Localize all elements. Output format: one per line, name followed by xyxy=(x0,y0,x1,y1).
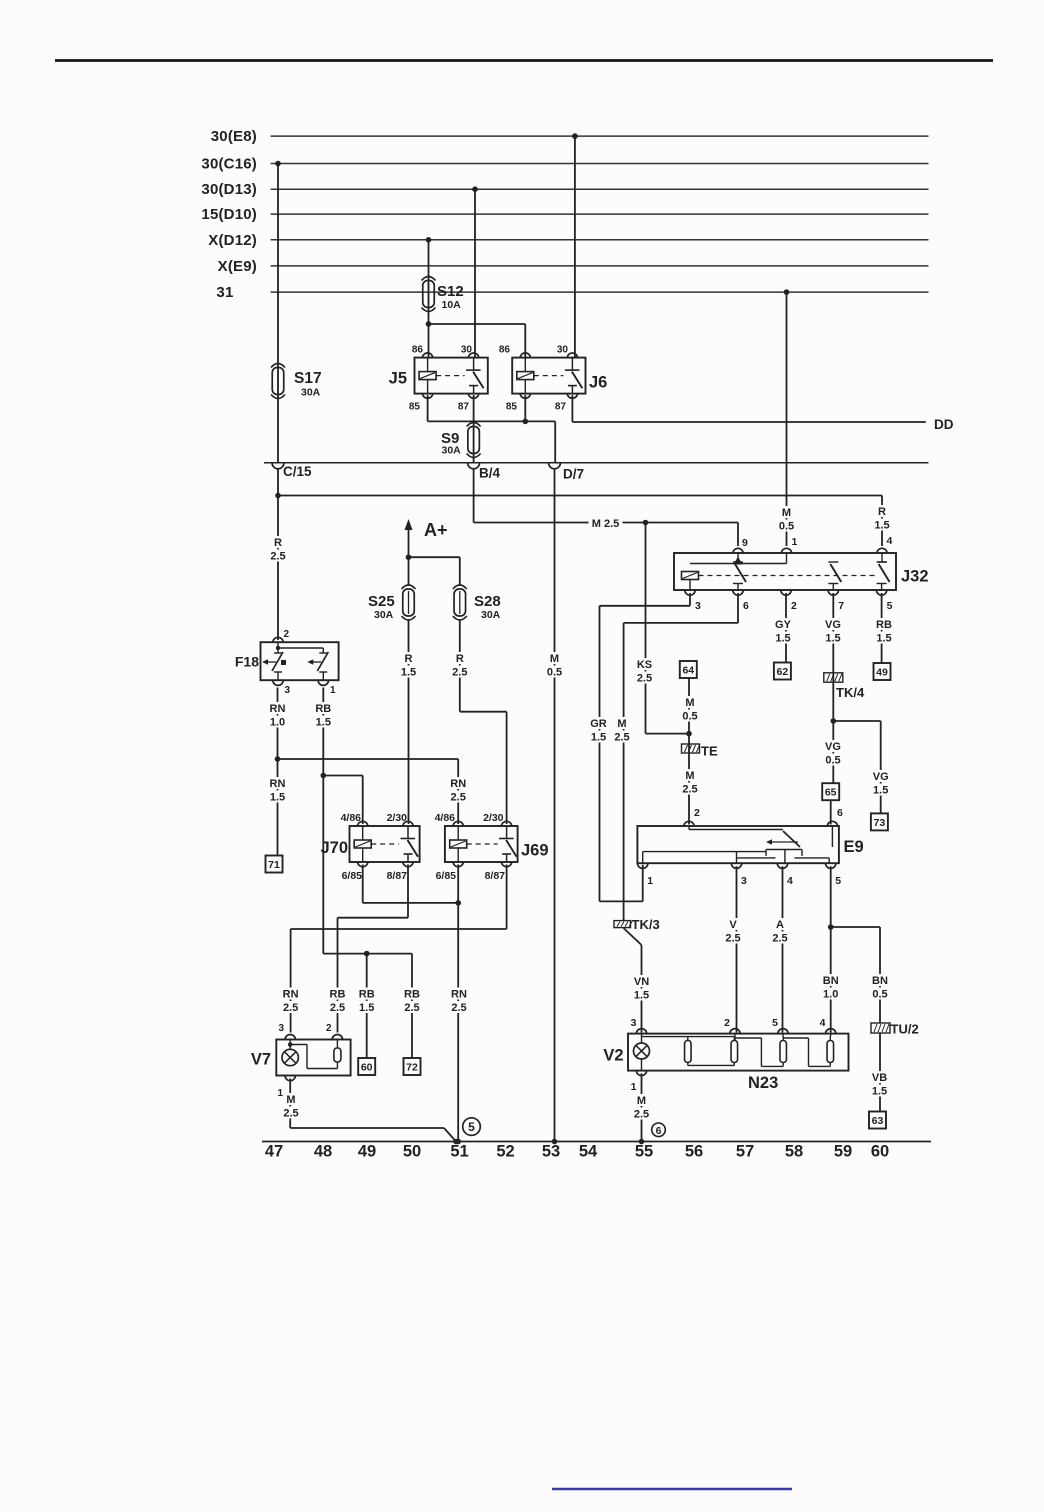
svg-text:KS: KS xyxy=(637,659,652,671)
svg-text:2: 2 xyxy=(326,1023,332,1034)
svg-text:M: M xyxy=(550,653,559,665)
svg-text:1.5: 1.5 xyxy=(634,990,649,1002)
svg-text:J69: J69 xyxy=(521,842,549,860)
svg-text:5: 5 xyxy=(835,875,841,887)
svg-text:RN: RN xyxy=(283,989,299,1001)
svg-text:M: M xyxy=(286,1094,295,1106)
svg-text:54: 54 xyxy=(579,1143,598,1161)
svg-text:30A: 30A xyxy=(374,609,394,621)
svg-text:F18: F18 xyxy=(235,654,259,670)
svg-text:73: 73 xyxy=(874,817,886,829)
svg-text:49: 49 xyxy=(876,667,888,679)
svg-text:2: 2 xyxy=(694,807,700,819)
svg-text:M: M xyxy=(685,770,694,782)
svg-text:1.5: 1.5 xyxy=(401,667,416,679)
svg-text:10A: 10A xyxy=(442,299,462,311)
svg-text:57: 57 xyxy=(736,1143,754,1161)
svg-text:DD: DD xyxy=(934,417,954,432)
svg-text:1.5: 1.5 xyxy=(874,520,889,532)
svg-text:2.5: 2.5 xyxy=(772,933,787,945)
svg-text:85: 85 xyxy=(409,402,421,413)
svg-text:6/85: 6/85 xyxy=(342,870,363,882)
svg-text:4/86: 4/86 xyxy=(341,812,362,824)
svg-text:55: 55 xyxy=(635,1143,653,1161)
svg-text:2.5: 2.5 xyxy=(283,1002,298,1014)
svg-text:72: 72 xyxy=(406,1062,418,1074)
svg-text:51: 51 xyxy=(450,1143,468,1161)
svg-text:6/85: 6/85 xyxy=(436,870,457,882)
svg-text:6: 6 xyxy=(743,600,749,612)
svg-text:6: 6 xyxy=(837,807,843,819)
svg-text:2.5: 2.5 xyxy=(330,1002,345,1014)
svg-text:2.5: 2.5 xyxy=(682,784,697,796)
svg-text:2: 2 xyxy=(284,629,290,640)
svg-text:0.5: 0.5 xyxy=(547,667,562,679)
svg-text:1.5: 1.5 xyxy=(316,717,331,729)
svg-text:J70: J70 xyxy=(320,839,348,857)
svg-text:1.5: 1.5 xyxy=(775,633,790,645)
svg-text:0.5: 0.5 xyxy=(825,755,840,767)
svg-text:A: A xyxy=(776,919,784,931)
svg-text:RB: RB xyxy=(359,989,375,1001)
svg-text:J6: J6 xyxy=(589,374,607,392)
svg-text:VG: VG xyxy=(825,619,841,631)
svg-text:J32: J32 xyxy=(901,568,929,586)
svg-text:3: 3 xyxy=(285,685,291,696)
svg-text:X(E9): X(E9) xyxy=(218,258,257,275)
svg-text:A+: A+ xyxy=(424,520,448,540)
svg-text:1: 1 xyxy=(792,536,798,548)
svg-text:49: 49 xyxy=(358,1143,376,1161)
svg-text:V2: V2 xyxy=(603,1047,623,1065)
svg-text:RN: RN xyxy=(450,778,466,790)
svg-text:4: 4 xyxy=(887,535,893,547)
svg-text:60: 60 xyxy=(361,1062,373,1074)
svg-text:E9: E9 xyxy=(844,838,864,856)
svg-text:47: 47 xyxy=(265,1143,283,1161)
svg-text:1.0: 1.0 xyxy=(270,717,285,729)
svg-text:X(D12): X(D12) xyxy=(208,232,257,249)
svg-text:C/15: C/15 xyxy=(283,464,312,479)
svg-text:2.5: 2.5 xyxy=(614,732,629,744)
svg-text:RB: RB xyxy=(404,989,420,1001)
svg-text:8/87: 8/87 xyxy=(485,870,506,882)
svg-text:VG: VG xyxy=(825,741,841,753)
svg-text:71: 71 xyxy=(268,859,280,871)
svg-text:M: M xyxy=(685,697,694,709)
svg-text:2.5: 2.5 xyxy=(637,673,652,685)
svg-text:1.5: 1.5 xyxy=(359,1002,374,1014)
svg-text:2.5: 2.5 xyxy=(451,1002,466,1014)
svg-text:30(C16): 30(C16) xyxy=(201,156,257,173)
svg-text:1: 1 xyxy=(277,1088,283,1099)
svg-text:56: 56 xyxy=(685,1143,703,1161)
svg-text:M: M xyxy=(637,1095,646,1107)
svg-text:2.5: 2.5 xyxy=(283,1108,298,1120)
svg-text:50: 50 xyxy=(403,1143,421,1161)
svg-text:RN: RN xyxy=(451,989,467,1001)
svg-text:2: 2 xyxy=(724,1017,730,1029)
svg-text:59: 59 xyxy=(834,1143,852,1161)
svg-text:RB: RB xyxy=(876,619,892,631)
svg-text:GR: GR xyxy=(590,718,607,730)
svg-text:VB: VB xyxy=(872,1072,887,1084)
svg-text:S25: S25 xyxy=(368,593,395,610)
svg-text:R: R xyxy=(878,506,886,518)
svg-text:2.5: 2.5 xyxy=(452,667,467,679)
svg-text:1.5: 1.5 xyxy=(591,732,606,744)
svg-text:30(D13): 30(D13) xyxy=(201,181,257,198)
svg-text:2/30: 2/30 xyxy=(483,812,504,824)
svg-text:30(E8): 30(E8) xyxy=(211,128,257,145)
svg-text:2: 2 xyxy=(791,600,797,612)
svg-text:TE: TE xyxy=(701,744,718,759)
svg-text:1: 1 xyxy=(330,685,336,696)
svg-text:1.5: 1.5 xyxy=(873,785,888,797)
svg-text:4: 4 xyxy=(787,875,793,887)
svg-text:3: 3 xyxy=(278,1023,284,1034)
svg-text:TK/4: TK/4 xyxy=(836,685,865,700)
svg-text:86: 86 xyxy=(412,345,424,356)
svg-text:RB: RB xyxy=(315,703,331,715)
svg-text:5: 5 xyxy=(887,600,893,612)
svg-text:62: 62 xyxy=(777,666,789,678)
svg-text:30A: 30A xyxy=(481,609,501,621)
svg-text:2.5: 2.5 xyxy=(451,792,466,804)
svg-text:GY: GY xyxy=(775,619,792,631)
svg-text:1.5: 1.5 xyxy=(872,1086,887,1098)
svg-text:30: 30 xyxy=(461,345,473,356)
svg-text:2.5: 2.5 xyxy=(634,1109,649,1121)
svg-text:RN: RN xyxy=(270,778,286,790)
svg-text:M: M xyxy=(617,718,626,730)
svg-text:87: 87 xyxy=(458,402,470,413)
svg-text:R: R xyxy=(456,653,464,665)
svg-text:V: V xyxy=(729,919,737,931)
svg-text:V7: V7 xyxy=(251,1051,271,1069)
svg-text:5: 5 xyxy=(772,1017,778,1029)
svg-text:VN: VN xyxy=(634,976,649,988)
svg-text:J5: J5 xyxy=(389,370,407,388)
svg-text:M 2.5: M 2.5 xyxy=(592,518,620,530)
svg-text:85: 85 xyxy=(506,402,518,413)
svg-text:BN: BN xyxy=(872,975,888,987)
svg-text:N23: N23 xyxy=(748,1074,778,1092)
svg-text:63: 63 xyxy=(872,1115,884,1127)
svg-text:3: 3 xyxy=(695,600,701,612)
svg-text:87: 87 xyxy=(555,402,567,413)
svg-text:53: 53 xyxy=(542,1143,560,1161)
svg-text:6: 6 xyxy=(656,1125,662,1137)
svg-text:RN: RN xyxy=(270,703,286,715)
svg-text:60: 60 xyxy=(871,1143,889,1161)
svg-text:58: 58 xyxy=(785,1143,803,1161)
svg-text:48: 48 xyxy=(314,1143,332,1161)
svg-text:2/30: 2/30 xyxy=(387,812,408,824)
svg-text:S28: S28 xyxy=(474,593,501,610)
svg-text:86: 86 xyxy=(499,345,511,356)
svg-text:1.5: 1.5 xyxy=(825,633,840,645)
svg-text:0.5: 0.5 xyxy=(779,521,794,533)
svg-text:15(D10): 15(D10) xyxy=(201,206,257,223)
svg-text:2.5: 2.5 xyxy=(404,1002,419,1014)
svg-text:1.5: 1.5 xyxy=(270,792,285,804)
svg-text:31: 31 xyxy=(216,284,233,301)
svg-text:R: R xyxy=(274,537,282,549)
svg-text:30A: 30A xyxy=(442,445,462,457)
svg-text:65: 65 xyxy=(825,787,837,799)
svg-text:0.5: 0.5 xyxy=(872,989,887,1001)
svg-text:BN: BN xyxy=(823,975,839,987)
svg-text:3: 3 xyxy=(741,875,747,887)
svg-text:1: 1 xyxy=(647,875,653,887)
svg-text:5: 5 xyxy=(468,1120,475,1134)
svg-text:7: 7 xyxy=(838,600,844,612)
svg-text:0.5: 0.5 xyxy=(682,711,697,723)
svg-text:2.5: 2.5 xyxy=(725,933,740,945)
svg-text:3: 3 xyxy=(631,1017,637,1029)
svg-text:30: 30 xyxy=(557,345,569,356)
svg-text:D/7: D/7 xyxy=(563,467,584,482)
svg-text:64: 64 xyxy=(682,665,694,677)
svg-text:R: R xyxy=(405,653,413,665)
svg-text:RB: RB xyxy=(330,989,346,1001)
svg-text:2.5: 2.5 xyxy=(270,551,285,563)
svg-text:8/87: 8/87 xyxy=(387,870,408,882)
svg-text:52: 52 xyxy=(496,1143,514,1161)
svg-text:B/4: B/4 xyxy=(479,466,501,481)
svg-text:VG: VG xyxy=(873,771,889,783)
svg-text:4/86: 4/86 xyxy=(435,812,456,824)
svg-text:1.5: 1.5 xyxy=(876,633,891,645)
svg-text:TU/2: TU/2 xyxy=(891,1022,919,1037)
svg-text:1: 1 xyxy=(631,1081,637,1093)
svg-text:9: 9 xyxy=(742,537,748,549)
svg-text:M: M xyxy=(782,507,791,519)
svg-text:4: 4 xyxy=(820,1017,826,1029)
svg-text:S17: S17 xyxy=(294,370,322,387)
svg-text:1.0: 1.0 xyxy=(823,989,838,1001)
svg-text:TK/3: TK/3 xyxy=(632,917,660,932)
svg-text:S12: S12 xyxy=(437,283,464,300)
svg-text:30A: 30A xyxy=(301,387,321,399)
